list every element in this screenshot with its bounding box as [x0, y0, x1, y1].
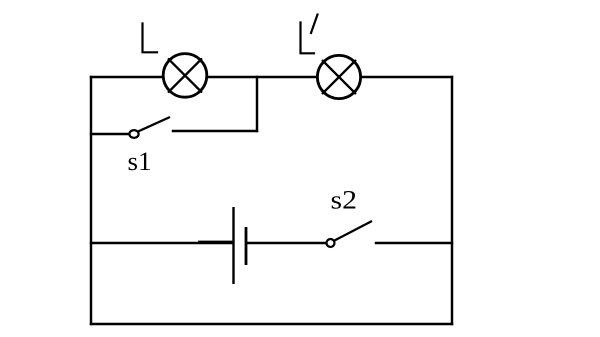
svg-text:s2: s2 — [331, 186, 358, 215]
svg-text:s1: s1 — [128, 147, 152, 176]
